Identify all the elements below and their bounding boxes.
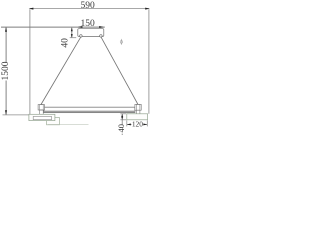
dimension 40 ring arrows (121, 114, 123, 120)
dimension 120 arrows (127, 123, 148, 125)
dimension 590 line (30, 8, 149, 10)
left end box (29, 114, 55, 120)
driver box (47, 118, 60, 125)
svg-text:150: 150 (80, 19, 95, 29)
canopy body (78, 29, 104, 37)
dimension 1500 arrows (5, 27, 7, 115)
canopy cable gland left (80, 35, 83, 38)
svg-text:120: 120 (132, 119, 143, 128)
ceiling line (1, 26, 105, 28)
canopy cable gland right (100, 35, 103, 38)
left end box inner (33, 116, 51, 119)
tube lower edge band (44, 110, 135, 112)
left gripper clamp (38, 105, 44, 110)
dimension 40 canopy line (71, 28, 73, 38)
phi symbol (120, 39, 122, 45)
extension line right (590) (148, 9, 150, 114)
svg-text:590: 590 (80, 1, 95, 11)
right gripper inner (136, 104, 140, 110)
extension line canopy bottom (70, 37, 77, 39)
svg-text:40: 40 (116, 124, 126, 133)
driver wire (48, 124, 89, 126)
svg-text:40: 40 (61, 38, 71, 48)
left gripper inner (40, 105, 44, 110)
extension lines 40 ring (120, 114, 126, 120)
left gripper stem (40, 110, 44, 114)
dimension 120 line (127, 123, 148, 125)
tube bottom line (44, 111, 135, 113)
suspension cable right (101, 37, 138, 105)
right gripper stem (136, 110, 140, 114)
svg-text:1500: 1500 (1, 61, 11, 80)
dimension 40 ring line (121, 114, 123, 135)
extension line bottom (1500) (3, 114, 29, 116)
right end box (127, 114, 148, 120)
tube body (44, 107, 135, 112)
extension line left (590) (29, 9, 31, 114)
dimension 150 arrows (78, 26, 104, 28)
extension lines 120 (127, 120, 148, 126)
suspension cable left (41, 37, 81, 105)
right gripper clamp (135, 104, 141, 110)
dimension 40 canopy arrows (71, 28, 73, 38)
dimension 1500 vertical (5, 28, 7, 115)
dimension 590 arrows (29, 8, 150, 10)
